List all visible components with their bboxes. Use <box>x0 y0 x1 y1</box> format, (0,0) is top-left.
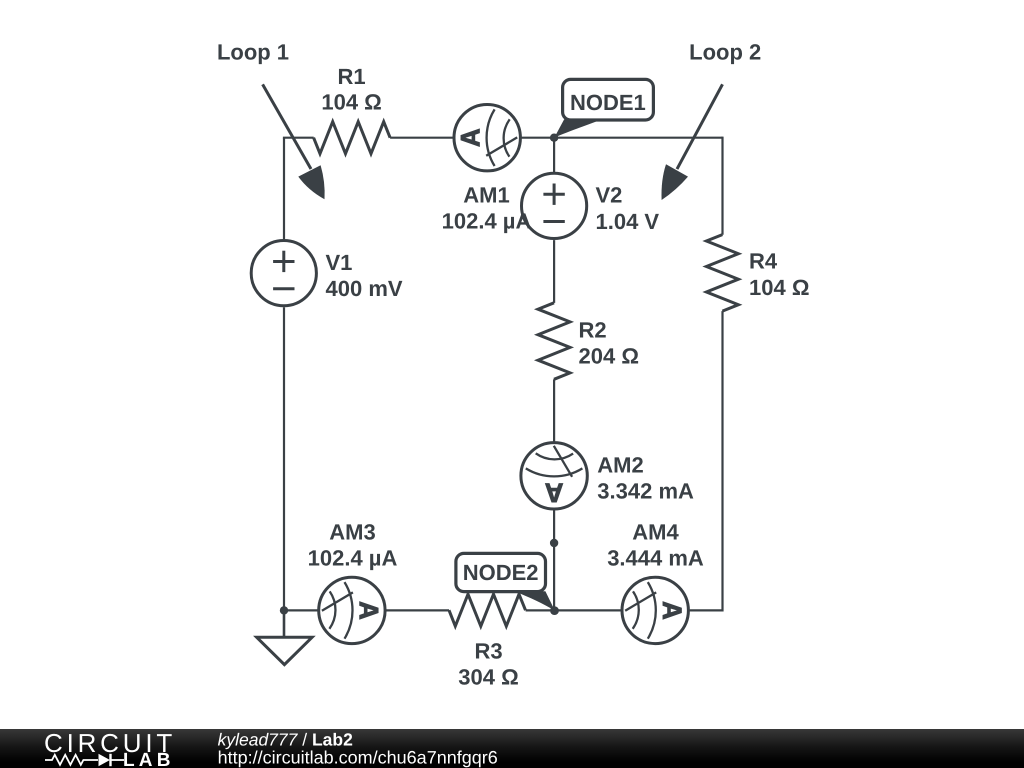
CircuitLab logo wordmark <box>44 728 176 768</box>
annotation arrow Loop 1 <box>263 84 325 199</box>
label AM2 value <box>597 452 694 503</box>
resistor R3 <box>449 594 526 626</box>
svg-text:V1: V1 <box>326 250 353 275</box>
svg-text:1.04 V: 1.04 V <box>596 209 660 234</box>
label AM1 value <box>442 182 532 233</box>
svg-text:R1: R1 <box>338 64 366 89</box>
wire: top horizontal left <box>283 137 314 139</box>
ground <box>257 610 312 664</box>
junction dot NODE1 <box>550 134 558 142</box>
ammeter AM2 <box>521 443 587 509</box>
svg-text:304 Ω: 304 Ω <box>458 664 518 689</box>
node NODE1 label <box>554 79 653 137</box>
svg-text:204 Ω: 204 Ω <box>579 344 639 369</box>
resistor R1 <box>314 122 391 154</box>
svg-text:400 mV: 400 mV <box>326 276 403 301</box>
ammeter AM3 <box>319 577 385 643</box>
ammeter AM1 <box>454 105 520 171</box>
svg-text:http://circuitlab.com/chu6a7nn: http://circuitlab.com/chu6a7nnfgqr6 <box>218 748 498 768</box>
svg-text:102.4 µA: 102.4 µA <box>308 545 398 570</box>
wire: R1 to AM1 <box>390 137 453 139</box>
wire: V2 to R2 <box>553 240 555 303</box>
label AM3 value <box>308 520 398 571</box>
junction dot ground <box>280 606 288 614</box>
svg-text:AM4: AM4 <box>632 520 679 545</box>
svg-text:3.342 mA: 3.342 mA <box>597 478 694 503</box>
wire: AM1 to node1 and across to right <box>522 137 723 139</box>
wire: R2 to AM2 <box>553 379 555 441</box>
svg-text:NODE1: NODE1 <box>570 90 646 115</box>
svg-text:AM2: AM2 <box>597 452 643 477</box>
footer bar <box>0 729 1024 768</box>
resistor R4 <box>706 235 738 312</box>
junction dot mid vertical <box>550 539 558 547</box>
svg-text:AM3: AM3 <box>329 520 375 545</box>
wire: AM3 to ground junction <box>284 609 318 611</box>
svg-text:AM1: AM1 <box>463 182 509 207</box>
annotation arrow Loop 2 <box>661 84 722 200</box>
svg-text:LAB: LAB <box>123 750 175 768</box>
wire: left vertical bottom segment <box>283 307 285 610</box>
label AM4 value <box>607 520 704 571</box>
voltage source V1 <box>251 241 316 306</box>
wire: AM2 to node2 junction <box>553 510 555 610</box>
svg-text:NODE2: NODE2 <box>463 560 539 585</box>
wire: right vertical upper <box>721 137 723 235</box>
ammeter AM4 <box>622 577 688 643</box>
svg-text:104 Ω: 104 Ω <box>749 275 809 300</box>
svg-text:104 Ω: 104 Ω <box>321 90 381 115</box>
label V2 value <box>596 183 660 234</box>
wire: node1 to V2 <box>553 138 555 172</box>
voltage source V2 <box>522 173 587 238</box>
wire: left vertical top segment <box>283 138 285 239</box>
label R1 value <box>321 64 381 115</box>
resistor R2 <box>538 303 570 380</box>
svg-text:R3: R3 <box>474 638 502 663</box>
svg-text:R2: R2 <box>579 318 607 343</box>
svg-text:R4: R4 <box>749 249 778 274</box>
junction dot NODE2 <box>550 606 559 615</box>
label R3 value <box>458 638 518 689</box>
wire: R3 to AM3 <box>386 609 449 611</box>
wire: AM4 to node2 junction <box>554 609 621 611</box>
label V1 value <box>326 250 403 301</box>
footer text <box>218 730 498 768</box>
svg-text:3.444 mA: 3.444 mA <box>607 545 704 570</box>
svg-text:102.4 µA: 102.4 µA <box>442 209 532 234</box>
node NODE2 label <box>456 553 555 610</box>
svg-text:Loop 1: Loop 1 <box>217 40 289 65</box>
label R2 value <box>579 318 639 369</box>
svg-text:Loop 2: Loop 2 <box>689 40 761 65</box>
svg-text:V2: V2 <box>596 183 623 208</box>
label R4 value <box>749 249 809 300</box>
wire: bottom right horizontal <box>690 609 723 611</box>
wire: node2 to R3 <box>526 609 555 611</box>
wire: right vertical lower <box>721 311 723 611</box>
